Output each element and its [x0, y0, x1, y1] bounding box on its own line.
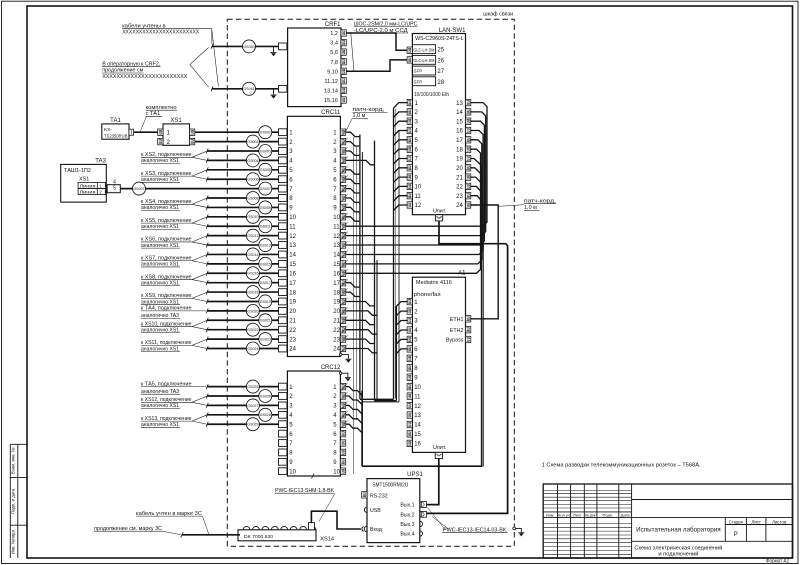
LAN-SW1 port 19 connector — [466, 155, 471, 161]
LAN-SW1 port 20 connector — [466, 165, 471, 171]
cable marker GS002 — [246, 135, 259, 148]
CRC11 port 12 cable entry — [279, 232, 287, 239]
CRC11 port 4 engagement mark — [341, 157, 347, 165]
patch cord bundle thin wire c — [394, 109, 396, 399]
power strip XS14 body DK 7000.630 — [238, 530, 316, 541]
CRC12 port 4 cable entry — [279, 411, 287, 418]
fork leader to fiber 1 — [190, 48, 209, 65]
CRC11 port 24 cable entry — [279, 345, 287, 352]
svg-text:GS005: GS005 — [260, 168, 271, 172]
patch cord CRC11 port 14 to LAN port 16 wire — [346, 131, 483, 255]
svg-text:Р: Р — [734, 532, 738, 538]
svg-text:Вых.3: Вых.3 — [400, 522, 414, 528]
patch cord into A1 phone port 5 — [396, 339, 408, 344]
patch cord CRC11 port 6 stub — [346, 179, 360, 183]
cable break tick CRC12 port 3 — [206, 403, 208, 408]
svg-text:Взам. инв. №: Взам. инв. № — [11, 447, 16, 474]
svg-text:17: 17 — [456, 138, 463, 144]
svg-text:10: 10 — [289, 215, 296, 221]
cable break tick port 11 — [206, 224, 208, 229]
power strip socket 7 — [300, 526, 307, 529]
cable to CRC12 port 4 wire — [207, 414, 278, 416]
svg-text:Лист: Лист — [573, 513, 582, 518]
LAN-SW1 port 13 connector — [466, 99, 471, 105]
cable to CRC12 port 2 wire — [207, 395, 278, 397]
CRC11 port 12 engagement mark — [341, 232, 347, 240]
TA3 wire pair to splice — [105, 184, 107, 186]
CRC11 port 1 cable entry — [279, 129, 287, 136]
patch cord CRC11 port 4 long stub — [346, 160, 375, 164]
CRC11 port 19 engagement mark — [341, 298, 347, 306]
svg-text:GS008: GS008 — [247, 196, 258, 200]
cable marker GS010 — [246, 210, 259, 223]
CRC11 port 13 engagement mark — [341, 241, 347, 249]
A1 phone port 15 connector — [407, 431, 412, 437]
cable break tick port 21 — [206, 318, 208, 323]
patch cord into LAN port 10 — [394, 186, 408, 192]
CRC12 port 1 right connector — [340, 383, 345, 389]
CRC11 port 7 right connector — [340, 185, 345, 191]
frame attribute column lines — [9, 444, 11, 558]
svg-text:11,12: 11,12 — [324, 79, 338, 85]
CRC11 port 17 engagement mark — [341, 279, 347, 287]
bundle horizontal to CRC12 — [362, 465, 482, 467]
A1 phone port 6 connector — [407, 346, 412, 352]
cable break tick port 18 — [206, 290, 208, 295]
power strip socket 8 — [309, 526, 316, 529]
fiber patch cord CRF1 1,2 to GLC25 wire — [346, 33, 407, 50]
svg-text:1 Схема разводки телекоммуника: 1 Схема разводки телекоммуникационных ро… — [542, 463, 701, 469]
cable marker GS006 — [246, 173, 259, 186]
UPS1 body — [367, 479, 420, 543]
CRC11 port 5 engagement mark — [341, 166, 347, 174]
patch cord CRC11 port 23 stub — [346, 339, 375, 343]
CRC11 port 19 right connector — [340, 298, 345, 304]
CRC12 port 3 right connector — [340, 402, 345, 408]
cable marker GS003 — [259, 145, 272, 158]
svg-text:SFP: SFP — [413, 79, 422, 84]
svg-text:7,8: 7,8 — [330, 60, 338, 66]
fiber cable 2 marker GS041 — [243, 82, 256, 95]
UPS1 USB connector — [364, 507, 367, 512]
svg-text:ТА1: ТА1 — [110, 118, 121, 124]
cable break tick CRC12 port 2 — [206, 394, 208, 399]
svg-text:Кол.уч: Кол.уч — [558, 513, 570, 518]
svg-text:19: 19 — [333, 300, 340, 306]
CRF1 port 13,14 connector — [341, 87, 346, 93]
cable to CRC11 port 9 wire — [207, 206, 278, 208]
svg-text:XS1: XS1 — [79, 177, 89, 183]
patch cord into LAN port 2 — [394, 112, 408, 118]
patch cord into LAN port 12 — [394, 205, 408, 211]
fork leader to XS5 wires — [192, 217, 207, 223]
cable marker GS025 — [246, 380, 259, 393]
CRC11 port 11 engagement mark — [341, 222, 347, 230]
cable break tick CRC12 port 1 — [206, 384, 208, 389]
svg-text:21: 21 — [456, 175, 463, 181]
CRC11 port 1 engagement mark — [341, 128, 347, 136]
CRC11 port 24 right connector — [340, 345, 345, 351]
cable marker GS022 — [246, 323, 259, 336]
CRC11 port 1 right connector — [340, 129, 345, 135]
svg-text:1,2: 1,2 — [330, 31, 338, 37]
power strip socket 5 — [281, 526, 288, 529]
svg-text:ТА3: ТА3 — [95, 158, 106, 164]
patch cord bundle vertical A — [359, 135, 361, 400]
CRF1 port 5,6 connector — [341, 49, 346, 55]
TA1 line connector — [129, 129, 134, 135]
svg-text:ETH2: ETH2 — [450, 328, 464, 334]
svg-text:Подп.: Подп. — [602, 513, 613, 518]
patch cord riser 2 — [398, 130, 400, 402]
CRC11 port 2 right connector — [340, 138, 345, 144]
power strip socket 2 — [253, 526, 260, 529]
svg-text:Uпит.: Uпит. — [433, 209, 446, 215]
LAN-SW1 port 22 connector — [466, 183, 471, 189]
cable marker GS029 — [246, 418, 259, 431]
fiber cable 2 shield ground — [273, 89, 275, 95]
patch cord LAN port 20 stub — [470, 168, 482, 175]
svg-text:GS003: GS003 — [260, 149, 271, 153]
leader PWC-IEC14 label to Vyh2 cord — [432, 517, 449, 530]
svg-text:Uпит.: Uпит. — [433, 445, 446, 451]
XS1 port 1 left connector — [158, 129, 163, 135]
LAN-SW1 port 6 connector — [407, 146, 412, 152]
LAN-SW1 port 9 connector — [407, 174, 412, 180]
svg-text:14: 14 — [414, 423, 421, 429]
svg-text:15: 15 — [289, 262, 296, 268]
CRC11 port 20 right connector — [340, 308, 345, 314]
cable marker GS001 — [259, 126, 272, 139]
svg-text:23: 23 — [456, 194, 463, 200]
cable TA3 to CRC11 port7 wire — [120, 188, 278, 190]
CRC11 port 2 engagement mark — [341, 138, 347, 146]
UPS1 Vhod input connector — [362, 526, 367, 532]
A1 phone port 11 connector — [407, 393, 412, 399]
CRC11 port 8 right connector — [340, 195, 345, 201]
power strip socket 3 — [262, 526, 269, 529]
svg-text:13: 13 — [289, 243, 296, 249]
CRC11 port 18 cable entry — [279, 289, 287, 296]
CRC11 port 3 cable entry — [279, 148, 287, 155]
svg-text:GLC-LH-SM: GLC-LH-SM — [413, 58, 434, 63]
leader patch-kord right to cord — [499, 205, 525, 207]
cable break tick port 8 — [206, 196, 208, 201]
CRC11 port 4 cable entry — [279, 157, 287, 164]
CRC12 port 7 right connector — [340, 440, 345, 446]
svg-text:GS009: GS009 — [260, 206, 271, 210]
CRC11 shield ground bond — [339, 353, 341, 355]
svg-text:10: 10 — [289, 469, 296, 475]
svg-text:11: 11 — [333, 224, 340, 230]
CRC11 port 13 cable entry — [279, 242, 287, 249]
svg-text:15: 15 — [456, 119, 463, 125]
CRC11 port 14 engagement mark — [341, 251, 347, 259]
patch cord CRC11 port 17 stub — [346, 283, 360, 287]
XS1 port 1 right connector — [190, 129, 195, 135]
leader from kabeli label to fiber 1 — [211, 29, 213, 45]
CRF1 cable entry box upper — [279, 43, 287, 50]
CRC11 port 18 engagement mark — [341, 288, 347, 296]
A1 phone port 4 connector — [407, 327, 412, 333]
cable marker GS014 — [246, 248, 259, 261]
cable marker GS016 — [246, 267, 259, 280]
CRC11 port 6 right connector — [340, 176, 345, 182]
patch cord bundle thin wire b — [356, 146, 358, 420]
cable marker GS028 — [259, 408, 272, 421]
fiber cable 2 wire — [212, 88, 279, 90]
svg-text:10: 10 — [333, 469, 340, 475]
fiber cable 1 marker GS040 — [243, 40, 256, 53]
cable to CRC11 port 8 wire — [207, 197, 278, 199]
svg-text:CRC12: CRC12 — [321, 365, 341, 371]
CRC11 port 7 cable entry — [279, 185, 287, 192]
leader prodolzhenie to supply cable — [163, 531, 182, 535]
CRC12 port 1 engagement mark — [341, 383, 347, 391]
fork leader to XS11 wires — [192, 339, 207, 345]
A1 port Bypass connector — [466, 336, 471, 342]
svg-text:21: 21 — [333, 318, 340, 324]
LAN-SW1 port 18 connector — [466, 146, 471, 152]
svg-text:GS026: GS026 — [260, 394, 271, 398]
svg-text:phone/fax: phone/fax — [414, 292, 441, 298]
CRC11 port 22 cable entry — [279, 326, 287, 333]
CRC12 port 8 right connector — [340, 449, 345, 455]
svg-text:GS007: GS007 — [260, 187, 271, 191]
svg-text:Листов: Листов — [772, 519, 787, 524]
patch cord into LAN port 3 — [394, 121, 408, 127]
fork leader to XS2 wires — [192, 151, 207, 157]
svg-text:10: 10 — [333, 215, 340, 221]
svg-text:ТАШ1-1П2: ТАШ1-1П2 — [64, 168, 91, 174]
LAN-SW1 module GLC-LH-SM port 25 — [412, 45, 435, 54]
CRC12 port 5 cable entry — [279, 421, 287, 428]
cable to CRC11 port 14 wire — [207, 253, 278, 255]
LAN-SW1 port 11 connector — [407, 193, 412, 199]
LAN-SW1 power inlet connector — [435, 215, 442, 221]
patch cord CRC11 port 16 to LAN port 18 wire — [346, 149, 481, 273]
CRC11 port 22 engagement mark — [341, 326, 347, 334]
CRC11 port 14 right connector — [340, 251, 345, 257]
svg-text:шкаф связи: шкаф связи — [483, 11, 513, 17]
svg-text:20: 20 — [333, 309, 340, 315]
LAN-SW1 port 8 connector — [407, 165, 412, 171]
LAN-SW1 port 7 connector — [407, 155, 412, 161]
CRC11 port 5 cable entry — [279, 166, 287, 173]
title block table — [543, 484, 792, 558]
svg-text:13,14: 13,14 — [324, 89, 338, 95]
CRC11 port 15 right connector — [340, 261, 345, 267]
svg-text:19: 19 — [289, 300, 296, 306]
patch cord CRC12 port 2 stub — [346, 396, 362, 405]
cable marker GS020 — [246, 304, 259, 317]
power strip socket 1 — [243, 526, 250, 529]
fork leader to XS10 wires — [192, 320, 207, 326]
svg-text:GS004: GS004 — [247, 159, 258, 163]
svg-text:18: 18 — [456, 147, 463, 153]
svg-text:14: 14 — [333, 253, 340, 259]
leader patch-kord upper to cord — [346, 118, 353, 131]
TA3 line table — [78, 182, 105, 188]
patch cord into LAN port 8 — [394, 168, 408, 174]
LAN-SW1 port 3 connector — [407, 118, 412, 124]
patch cord CRC11 port 8 stub — [346, 198, 360, 202]
patch cord CRC11 port 20 stub — [346, 311, 377, 315]
svg-text:Вых.1: Вых.1 — [400, 503, 414, 509]
CRC11 port 20 engagement mark — [341, 307, 347, 315]
patch cord CRC11 port 5 stub — [346, 170, 360, 174]
svg-text:GS011: GS011 — [260, 225, 271, 229]
fork leader to XS9 wires — [192, 292, 207, 298]
svg-text:TS2350RUB: TS2350RUB — [104, 133, 128, 139]
A1 phone port 10 connector — [407, 384, 412, 390]
patch cord CRC11 port 11 to LAN port 13 wire — [346, 103, 487, 227]
LAN-SW1 port 1 connector — [407, 99, 412, 105]
cable marker GS009 — [259, 201, 272, 214]
A1 phone port 2 connector — [407, 308, 412, 314]
CRF1 port 11,12 connector — [341, 78, 346, 84]
CRC11 port 24 engagement mark — [341, 345, 347, 353]
cable break tick port 20 — [206, 308, 208, 313]
optical cross CRF1 body — [288, 28, 341, 107]
leader komplektno to cord — [140, 116, 147, 132]
patch cord CRC12 port 3 stub — [346, 405, 362, 414]
svg-text:14: 14 — [456, 110, 463, 116]
patch cord into LAN port 7 — [394, 159, 408, 165]
patch cord CRC11 port 22 stub — [346, 330, 377, 334]
cable to CRC11 port 12 wire — [207, 235, 278, 237]
fork leader to fiber 2 — [190, 65, 209, 87]
svg-text:Схема электрическая соединений: Схема электрическая соединений — [634, 545, 722, 552]
svg-text:DK 7000.630: DK 7000.630 — [244, 534, 273, 540]
CRC12 bottom break mark — [312, 474, 315, 479]
cable to CRC11 port 11 wire — [207, 225, 278, 227]
supply cable to power strip wire — [182, 534, 240, 536]
svg-text:CRC11: CRC11 — [321, 110, 341, 116]
cable break tick CRC12 port 5 — [206, 422, 208, 427]
svg-text:19: 19 — [456, 157, 463, 163]
patch cord into LAN port 4 — [394, 131, 408, 137]
UPS1 output Вых.4 connector — [420, 531, 423, 536]
leader PWC-SHM label to cord — [319, 493, 335, 521]
CRC12 port 4 right connector — [340, 412, 345, 418]
A1 power inlet connector — [435, 452, 442, 458]
svg-text:Изм.: Изм. — [546, 513, 555, 518]
svg-text:LAN-SW1: LAN-SW1 — [439, 28, 466, 34]
CRC11 port 15 cable entry — [279, 261, 287, 268]
CRC12 port 7 cable entry — [279, 440, 287, 447]
CRC11 port 18 right connector — [340, 289, 345, 295]
CRC11 port 8 cable entry — [279, 195, 287, 202]
A1 phone port 14 connector — [407, 421, 412, 427]
svg-text:продолжение см. марку 3С: продолжение см. марку 3С — [94, 526, 162, 532]
cable break tick port 9 — [206, 205, 208, 210]
svg-text:23: 23 — [333, 337, 340, 343]
cable to CRC12 port 1 wire — [207, 386, 278, 388]
svg-text:USB: USB — [370, 508, 381, 514]
svg-text:Вых.2: Вых.2 — [400, 512, 414, 518]
cable marker GS008 — [246, 192, 259, 205]
svg-text:12: 12 — [414, 404, 421, 410]
svg-text:ХХХХХХХХХХХХХХХХХХХХХХХ: ХХХХХХХХХХХХХХХХХХХХХХХ — [122, 30, 200, 36]
CRC12 port 2 cable entry — [279, 393, 287, 400]
svg-text:GS017: GS017 — [260, 281, 271, 285]
patch cord LAN port 19 stub — [470, 159, 481, 166]
cabinet earth symbol — [518, 533, 524, 537]
VoIP gateway A1 body — [412, 277, 465, 452]
cable break tick CRC12 port 4 — [206, 412, 208, 417]
power cord strip to UPS Vhod — [311, 511, 361, 529]
CRC12 port 5 engagement mark — [341, 420, 347, 428]
fork leader to XS3 wires — [192, 170, 207, 176]
CRC11 port 14 cable entry — [279, 251, 287, 258]
CRC11 port 12 right connector — [340, 232, 345, 238]
cable marker GS005 — [259, 163, 272, 176]
cable break tick port 19 — [206, 299, 208, 304]
svg-text:GS027: GS027 — [247, 404, 258, 408]
cable break tick port 12 — [206, 233, 208, 238]
svg-text:22: 22 — [456, 185, 463, 191]
patch cord bundle vertical B — [374, 141, 376, 401]
LAN-SW1 port 21 connector — [466, 174, 471, 180]
LAN-SW1 port 16 connector — [466, 127, 471, 133]
CRC12 port 10 cable entry — [279, 468, 287, 475]
cable break tick port 23 — [206, 337, 208, 342]
cable break tick port 15 — [206, 261, 208, 266]
svg-text:15: 15 — [333, 262, 340, 268]
A1 phone port 13 connector — [407, 412, 412, 418]
patch cord LAN port 23 stub — [470, 196, 483, 203]
svg-text:GS028: GS028 — [260, 413, 271, 417]
svg-text:UPS1: UPS1 — [407, 472, 423, 478]
cable to CRC11 port 15 wire — [207, 263, 278, 265]
CRC11 port 3 engagement mark — [341, 147, 347, 155]
svg-text:Испытательная лаборатория: Испытательная лаборатория — [636, 528, 721, 534]
CRC11 port 17 cable entry — [279, 279, 287, 286]
patch cord CRC11 port 2 stub — [346, 142, 360, 146]
patch cord CRC11 port 24 stub — [346, 349, 377, 353]
CRC12 port 3 cable entry — [279, 402, 287, 409]
svg-text:GS041: GS041 — [243, 87, 254, 91]
patch cord CRC11 port 19 stub — [346, 302, 375, 306]
CRC11 port 16 engagement mark — [341, 269, 347, 277]
CRC11 port 6 cable entry — [279, 176, 287, 183]
A1 phone port 3 connector — [407, 317, 412, 323]
patch cord into LAN port 11 — [394, 196, 408, 202]
CRC11 port 21 right connector — [340, 317, 345, 323]
patch cord CRC12 port 1 stub — [346, 387, 362, 396]
CRC12 port 1 cable entry — [279, 383, 287, 390]
cable to CRC11 port 23 wire — [207, 338, 278, 340]
CRC11 port 9 cable entry — [279, 204, 287, 211]
svg-text:Формат А2: Формат А2 — [766, 559, 789, 565]
fiber cable 1 break tick — [211, 44, 213, 49]
svg-text:27: 27 — [437, 69, 444, 75]
patch cord into A1 phone port 4 — [396, 330, 408, 335]
cable to CRC11 port 13 wire — [207, 244, 278, 246]
CRC11 port 16 cable entry — [279, 270, 287, 277]
cable to CRC11 port 18 wire — [207, 291, 278, 293]
CRC11 port 6 engagement mark — [341, 175, 347, 183]
UPS1 output Вых.1 connector — [420, 502, 423, 507]
fiber cable 1 wire — [212, 45, 279, 47]
UPS1 output Вых.2 connector — [420, 512, 423, 517]
LAN-SW1 port 4 connector — [407, 127, 412, 133]
LAN-SW1 port 12 connector — [407, 202, 412, 208]
svg-text:11: 11 — [289, 224, 296, 230]
cable break tick port 5 — [206, 167, 208, 172]
CRC11 port 19 cable entry — [279, 298, 287, 305]
